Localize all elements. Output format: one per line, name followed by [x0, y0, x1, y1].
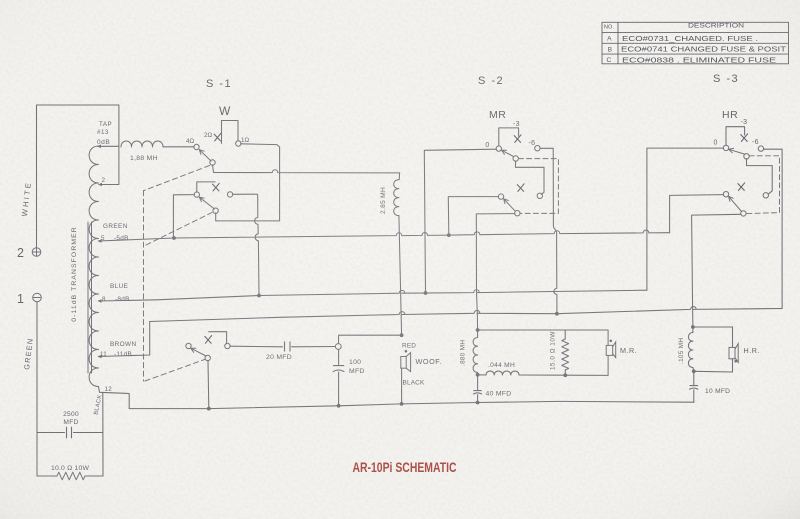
- wire 15ohm to rail: [564, 370, 566, 375]
- transformer coil: [89, 146, 98, 387]
- .880MH coil: [473, 338, 478, 373]
- HR network top rail: [693, 326, 733, 328]
- position mark X: [205, 336, 212, 344]
- S-2 lower wiper: [504, 199, 516, 212]
- wire node to 100MFD: [338, 349, 340, 364]
- S-3 lower wiper: [729, 196, 742, 211]
- wire tap 5 (-5dB): [99, 238, 175, 241]
- junction: [447, 233, 451, 237]
- capacitor 10 MFD: [689, 386, 698, 390]
- S-1 contact 4ohm: [194, 144, 199, 149]
- woofer polarity dot: [405, 350, 408, 353]
- wire 2.85MH down to woofer: [399, 216, 402, 336]
- node circle: [335, 344, 341, 350]
- wire S-3 lower left contact to -5dB bus: [670, 195, 724, 233]
- wire HR node to 10MFD: [693, 371, 695, 384]
- terminal 1 (-): [33, 293, 42, 302]
- HR network bottom rail: [694, 370, 733, 373]
- wire 20MFD to node: [292, 346, 336, 348]
- S-3 lower contact left: [723, 192, 728, 197]
- junction: [563, 373, 567, 377]
- S-1 contact 1ohm: [236, 141, 241, 146]
- junction: [400, 333, 404, 337]
- HR network right rail: [732, 327, 734, 372]
- -8dB bus wire: [99, 290, 647, 301]
- position mark X: [213, 183, 220, 191]
- wire to 20MFD: [230, 345, 283, 348]
- junction: [555, 312, 559, 316]
- S-2 contact 0: [496, 146, 501, 151]
- -5dB bus wire: [174, 230, 670, 238]
- wire 40MFD to bottom bus: [477, 395, 479, 403]
- .105MH lead2: [692, 368, 695, 372]
- tap 8 arrowhead: [98, 299, 102, 303]
- 15 ohm zigzag: [562, 339, 569, 370]
- S-2 contact -6: [535, 146, 540, 151]
- wire S-3 pivot to lower right contact: [747, 159, 773, 195]
- S-1 bottom bracket: [209, 332, 227, 344]
- position mark X: [214, 133, 221, 141]
- S-3 top pivot: [744, 154, 749, 159]
- S-2 lower pivot: [515, 211, 520, 216]
- wire S-2 contact -6 to -11dB bus: [540, 148, 557, 313]
- S-1 mid pivot: [213, 208, 218, 213]
- wire busA into 2.85MH: [398, 173, 400, 180]
- speaker woofer: [401, 353, 411, 372]
- speaker M.R.: [606, 330, 616, 375]
- S-3 top wiper: [729, 148, 745, 154]
- 1.88MH coil: [121, 141, 163, 147]
- wire S-2 lower pivot to MR network: [476, 214, 515, 330]
- position mark X: [738, 183, 745, 191]
- tap 5 arrowhead: [98, 239, 102, 243]
- wire to .044MH: [478, 374, 486, 376]
- junction: [400, 402, 404, 406]
- junction: [476, 373, 480, 377]
- wire from terminal 1 down: [36, 302, 38, 476]
- wire S-1 mid left contact to -5dB bus: [173, 195, 194, 238]
- junction: [476, 401, 480, 405]
- wire 1.88MH to S-1 contact: [163, 146, 194, 148]
- -11dB bus wire: [150, 307, 782, 322]
- S-2 lower contact left: [498, 194, 503, 199]
- capacitor 20 MFD: [285, 342, 291, 352]
- .105MH coil: [688, 333, 693, 368]
- wire S-1 mid open contact to -8dB bus: [233, 194, 260, 295]
- position mark X: [741, 134, 748, 142]
- wire S-3 lower pivot to HR network: [692, 214, 741, 326]
- resistor 10 ohm zigzag: [57, 472, 85, 480]
- S-3 contact 0: [723, 145, 728, 150]
- bottom bus wire: [129, 401, 694, 408]
- 2.85MH coil: [394, 180, 399, 216]
- wire S-1 pivot to 2.85MH: [213, 165, 400, 173]
- junction: [476, 328, 480, 332]
- wire MR node to 40MFD: [477, 375, 479, 390]
- S-3 bracket 0 to -3: [726, 127, 745, 146]
- .880MH lead: [477, 330, 479, 338]
- S-1 top pivot: [210, 160, 215, 165]
- S-1 gang dashed link: [144, 166, 213, 382]
- S-1 mid contact open: [227, 192, 232, 197]
- S-2 gang dashed link: [518, 159, 558, 214]
- S-1 top wiper: [199, 150, 211, 161]
- wire woofer to bottom bus: [401, 368, 403, 404]
- revision table frame: [602, 22, 789, 64]
- wire S-1 mid pivot down: [216, 213, 217, 221]
- wire to 15ohm: [564, 330, 566, 339]
- wire S-1 bottom pivot to bottom bus: [207, 360, 210, 408]
- H.R. polarity dot: [734, 360, 737, 363]
- W bracket wire: [222, 121, 239, 144]
- S-1 bottom wiper: [191, 348, 206, 356]
- wire tap12 node down to R/C: [102, 393, 104, 476]
- M.R. polarity dot: [610, 340, 613, 343]
- S-1 mid bracket: [197, 182, 215, 192]
- tap 11 arrowhead: [98, 355, 102, 359]
- S-2 top pivot: [513, 156, 518, 161]
- S-1 mid contact left: [194, 192, 199, 197]
- position mark X: [514, 135, 521, 143]
- junction: [337, 404, 341, 408]
- wire from 10ohm resistor: [85, 475, 103, 477]
- wire from terminal 2 to transformer taps: [37, 105, 119, 248]
- wire node up to woofer node: [339, 335, 402, 343]
- tap 2 arrowhead: [98, 183, 102, 187]
- capacitor 40 MFD: [473, 391, 482, 395]
- capacitor 2500 MFD: [67, 427, 72, 438]
- S-1 mid wiper: [199, 197, 214, 209]
- S-2 top wiper: [502, 150, 514, 156]
- .880MH lead2: [477, 373, 479, 375]
- S-2 lower contact right: [537, 193, 542, 198]
- wire S-2 contact 0 to -8dB bus: [424, 149, 496, 293]
- wire -8dB bus riser to S-3 contact 0: [647, 148, 724, 290]
- position mark X: [517, 184, 524, 192]
- S-3 gang dashed link: [746, 156, 780, 214]
- S-1 bottom contact right: [225, 343, 230, 348]
- junction: [172, 236, 176, 240]
- wire to 10ohm resistor: [37, 475, 57, 477]
- wire 2500MFD row: [37, 432, 103, 434]
- junction: [691, 325, 695, 329]
- transformer core lines: [88, 222, 92, 373]
- wire S-2 pivot to lower right contact: [515, 161, 544, 194]
- S-3 lower contact right: [763, 193, 768, 198]
- wire tap 11 to -11dB bus riser: [99, 322, 150, 357]
- speaker H.R.: [729, 344, 738, 363]
- wire 1ohm contact down to S-1 mid pivot: [217, 144, 280, 221]
- S-1 bottom pivot: [205, 355, 210, 360]
- tap 0dB arrowhead: [97, 145, 101, 149]
- .105MH lead: [692, 327, 694, 333]
- junction: [424, 291, 428, 295]
- wire 100MFD to bottom bus: [338, 372, 340, 406]
- svg-text:AR-10Pi SCHEMATIC: AR-10Pi SCHEMATIC: [353, 460, 457, 475]
- .044MH coil: [486, 371, 519, 375]
- wire 0dB tap: [98, 145, 119, 147]
- terminal 2 (+): [32, 248, 41, 257]
- capacitor 100 MFD (polarized): [333, 366, 345, 372]
- junction: [692, 369, 696, 373]
- S-1 bottom contact left: [186, 343, 191, 348]
- wire tap 12 to bottom bus: [99, 387, 130, 409]
- S-3 contact -6: [758, 146, 763, 151]
- junction: [207, 407, 211, 411]
- S-2 bracket 0 to -3: [499, 128, 519, 146]
- S-3 lower pivot: [741, 211, 746, 216]
- wire S-2 lower left contact to -5dB bus: [448, 197, 498, 235]
- wire -11dB bus riser to S-3 contact -6: [763, 149, 782, 308]
- junction: [257, 294, 261, 298]
- MR network bottom rail: [519, 374, 608, 376]
- wire 10MFD to bottom bus: [693, 390, 695, 402]
- MR network top rail: [478, 329, 608, 331]
